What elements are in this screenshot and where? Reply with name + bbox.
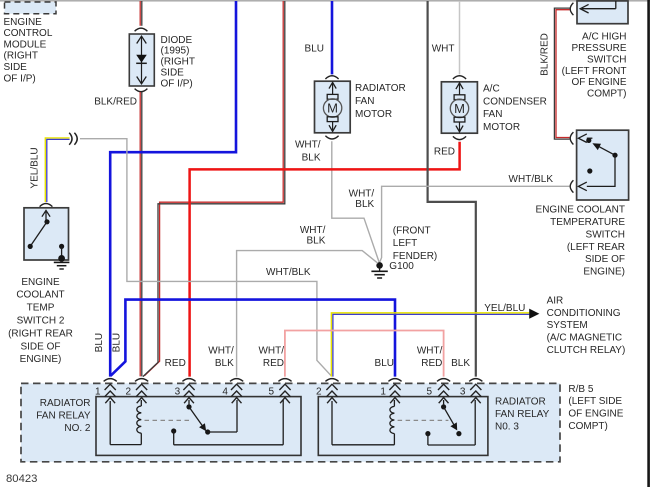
svg-text:(RIGHT REAR: (RIGHT REAR [8, 328, 73, 339]
svg-text:NO. 2: NO. 2 [64, 423, 91, 434]
svg-text:1: 1 [380, 387, 386, 398]
svg-text:M: M [454, 101, 465, 116]
svg-text:SWITCH: SWITCH [586, 229, 625, 240]
connector above condenser fan motor [453, 76, 466, 79]
svg-text:WHT/: WHT/ [349, 188, 375, 199]
svg-text:RADIATOR: RADIATOR [495, 397, 546, 408]
engine coolant temp switch 2 S3 box [24, 208, 69, 260]
condenser fan motor symbol [459, 83, 461, 95]
svg-text:WHT/BLK: WHT/BLK [266, 267, 311, 278]
wire YEL/BLU relay2 pin2 to A/C system [331, 313, 529, 377]
svg-text:FAN: FAN [355, 96, 374, 107]
svg-text:BLU: BLU [305, 44, 324, 55]
svg-text:ENGINE): ENGINE) [20, 354, 62, 365]
relay1 pin4 internal wire [208, 431, 237, 433]
svg-text:OF ENGINE: OF ENGINE [568, 409, 623, 420]
svg-text:3: 3 [460, 387, 466, 398]
svg-text:SYSTEM: SYSTEM [547, 320, 588, 331]
connector above engine coolant temp switch 2 [40, 204, 53, 207]
relay2 pin 3 connector [469, 379, 482, 382]
svg-text:CONTROL: CONTROL [4, 28, 53, 39]
svg-text:BLK: BLK [302, 152, 321, 163]
wire BLK/RED from top to relay1 pin2 [144, 1, 283, 376]
svg-text:WHT: WHT [432, 43, 455, 54]
relay1 pin 4 connector [230, 379, 243, 382]
svg-text:OF I/P): OF I/P) [4, 73, 36, 84]
A/C high pressure switch S1 box [577, 1, 628, 24]
svg-text:(LEFT REAR: (LEFT REAR [567, 242, 625, 253]
svg-text:COMPT): COMPT) [587, 89, 626, 100]
relay2 coil circuit [331, 401, 333, 445]
wire WHT/BLK coolant temp switch to G100 [380, 186, 570, 262]
svg-text:CONDENSER: CONDENSER [483, 96, 547, 107]
svg-text:SIDE OF: SIDE OF [585, 254, 625, 265]
engine control module box (dashed, top left) [5, 2, 57, 14]
wire BLK/RED from ECM to diode [139, 1, 141, 26]
svg-text:ENGINE): ENGINE) [583, 267, 625, 278]
arrow to air conditioning system [529, 309, 539, 319]
relay1 pin 3 connector [182, 379, 195, 382]
connector below diode [135, 89, 148, 92]
svg-text:MOTOR: MOTOR [355, 109, 392, 120]
svg-text:R/B 5: R/B 5 [568, 384, 593, 395]
svg-text:N0. 3: N0. 3 [495, 421, 519, 432]
wire BLU into radiator fan motor [331, 1, 334, 74]
svg-text:(LEFT FRONT: (LEFT FRONT [562, 66, 627, 77]
svg-text:1: 1 [95, 387, 101, 398]
svg-text:MOTOR: MOTOR [483, 122, 520, 133]
svg-text:4: 4 [222, 387, 228, 398]
svg-text:TEMPERATURE: TEMPERATURE [550, 217, 625, 228]
relay1 mechanical link (dashed) [145, 419, 193, 421]
svg-text:SIDE: SIDE [4, 62, 28, 73]
svg-text:RED: RED [421, 358, 442, 369]
wire BLU from top to relay1 pin1 [110, 1, 236, 377]
svg-text:PRESSURE: PRESSURE [571, 43, 626, 54]
wire WHT into condenser motor [459, 1, 461, 74]
svg-text:5: 5 [427, 387, 433, 398]
svg-text:SIDE: SIDE [161, 68, 185, 79]
connector at A/C high pressure switch [570, 3, 573, 15]
svg-text:DIODE: DIODE [161, 35, 193, 46]
svg-text:CLUTCH RELAY): CLUTCH RELAY) [547, 345, 626, 356]
page right border [647, 0, 650, 487]
svg-text:CONDITIONING: CONDITIONING [547, 308, 621, 319]
svg-text:BLK: BLK [451, 358, 470, 369]
svg-text:RED: RED [263, 358, 284, 369]
svg-text:OF ENGINE: OF ENGINE [571, 77, 626, 88]
diode D1 box [129, 34, 154, 86]
wire WHT/BLK connector to relay2 pin2 [80, 139, 331, 376]
svg-text:BLK: BLK [355, 199, 374, 210]
page top border [0, 0, 650, 2]
svg-text:BLK: BLK [306, 235, 325, 246]
relay2 pin 2 connector [325, 379, 338, 382]
svg-text:M: M [327, 101, 338, 116]
wire YEL/BLU switch2 to connector [45, 138, 69, 202]
ground G100 [376, 262, 383, 269]
relay1 pin5 internal wire [173, 431, 175, 445]
wire WHT/BLK relay1 pin4 to G100 [237, 251, 378, 377]
wire BLK/RED high pressure switch to coolant temp switch [554, 8, 569, 139]
svg-text:(1995): (1995) [161, 46, 190, 57]
svg-text:RADIATOR: RADIATOR [40, 398, 91, 409]
relay1 coil circuit [109, 401, 111, 445]
svg-text:RADIATOR: RADIATOR [355, 83, 406, 94]
wire BLK from top to relay2 pin3 [428, 1, 476, 377]
relay2 pin 1 connector [388, 379, 401, 382]
relay2 pin3 internal wire [427, 434, 429, 445]
coolant temp switch 2 contacts [45, 212, 47, 222]
relay1 pin 2 connector [135, 379, 148, 382]
svg-text:BLU: BLU [111, 333, 122, 352]
connector pair on YEL/BLU wire [69, 133, 72, 145]
svg-text:ENGINE COOLANT: ENGINE COOLANT [536, 205, 625, 216]
relay2 switch [443, 400, 445, 404]
svg-text:BLK: BLK [215, 358, 234, 369]
wire BLU relay1 pin1 to relay2 pin1 [111, 300, 395, 377]
svg-text:A/C: A/C [483, 83, 500, 94]
wire WHT/RED relay1 pin5 to relay2 pin5 [285, 331, 444, 377]
svg-text:SWITCH 2: SWITCH 2 [17, 316, 65, 327]
svg-text:(A/C MAGNETIC: (A/C MAGNETIC [547, 333, 623, 344]
svg-text:AIR: AIR [547, 295, 564, 306]
svg-text:G100: G100 [389, 261, 414, 272]
connector at coolant temp switch top terminal [570, 132, 573, 144]
svg-text:WHT/: WHT/ [300, 225, 326, 236]
svg-text:RED: RED [434, 147, 455, 158]
svg-text:(FRONT: (FRONT [393, 226, 431, 237]
radiator fan motor M1 box [315, 81, 351, 133]
relay1 pin 5 connector [278, 379, 291, 382]
A/C condenser fan motor M2 box [441, 82, 477, 133]
ground at switch 2 [54, 261, 70, 263]
wire WHT/BLK radiator fan motor to G100 [332, 141, 380, 263]
relay1 switch [188, 400, 190, 404]
svg-text:2: 2 [125, 387, 131, 398]
svg-text:SIDE OF: SIDE OF [20, 341, 60, 352]
radiator fan relay No.2 K1 box [96, 397, 301, 456]
R/B 5 junction block box (dashed) [21, 383, 560, 461]
svg-text:(RIGHT: (RIGHT [4, 51, 38, 62]
svg-text:COOLANT: COOLANT [16, 290, 64, 301]
svg-text:3: 3 [175, 387, 181, 398]
svg-text:MODULE: MODULE [4, 39, 47, 50]
svg-text:A/C HIGH: A/C HIGH [582, 32, 626, 43]
svg-text:ENGINE: ENGINE [21, 277, 60, 288]
svg-text:BLK/RED: BLK/RED [94, 96, 137, 107]
wire BLK/RED diode to relay1 pin2 [139, 92, 141, 376]
svg-text:COMPT): COMPT) [568, 421, 607, 432]
relay2 mechanical link (dashed) [398, 419, 449, 421]
svg-text:WHT/: WHT/ [208, 345, 234, 356]
svg-text:2: 2 [316, 387, 322, 398]
svg-text:OF I/P): OF I/P) [161, 78, 193, 89]
svg-text:BLU: BLU [94, 333, 105, 352]
relay2 pin 5 connector [437, 379, 450, 382]
svg-text:TEMP: TEMP [27, 303, 55, 314]
svg-text:WHT/: WHT/ [295, 139, 321, 150]
svg-text:FAN: FAN [483, 109, 502, 120]
A/C high pressure switch contacts [615, 1, 617, 9]
connector above diode [135, 28, 148, 31]
svg-text:(LEFT SIDE: (LEFT SIDE [568, 396, 622, 407]
radiator fan motor symbol [332, 83, 334, 95]
connector below condenser fan motor [453, 136, 466, 139]
coolant temperature switch contacts [578, 134, 586, 143]
connector above radiator fan motor [325, 76, 338, 79]
svg-text:(RIGHT: (RIGHT [161, 57, 195, 68]
svg-text:WHT/: WHT/ [258, 345, 284, 356]
relay1 pin 1 connector [104, 379, 117, 382]
svg-text:SWITCH: SWITCH [587, 54, 626, 65]
wire RED condenser motor to relay1 pin3 [190, 142, 460, 377]
svg-text:80423: 80423 [6, 473, 37, 485]
svg-text:FAN RELAY: FAN RELAY [495, 409, 550, 420]
svg-text:ENGINE: ENGINE [4, 17, 43, 28]
svg-text:WHT/BLK: WHT/BLK [509, 174, 554, 185]
connector below radiator fan motor [325, 136, 338, 139]
connector at coolant temp switch bottom terminal [570, 180, 573, 192]
svg-text:YEL/BLU: YEL/BLU [484, 303, 525, 314]
svg-text:LEFT: LEFT [393, 238, 417, 249]
engine coolant temperature switch S2 box [577, 130, 629, 200]
svg-text:RED: RED [165, 358, 186, 369]
svg-text:WHT/: WHT/ [417, 345, 443, 356]
diode D1 symbol [141, 37, 143, 84]
svg-text:5: 5 [268, 387, 274, 398]
svg-text:YEL/BLU: YEL/BLU [30, 147, 41, 188]
svg-text:BLU: BLU [375, 358, 394, 369]
svg-text:FAN RELAY: FAN RELAY [36, 410, 91, 421]
svg-text:BLK/RED: BLK/RED [540, 33, 551, 76]
radiator fan relay N0.3 K2 box [318, 397, 488, 456]
